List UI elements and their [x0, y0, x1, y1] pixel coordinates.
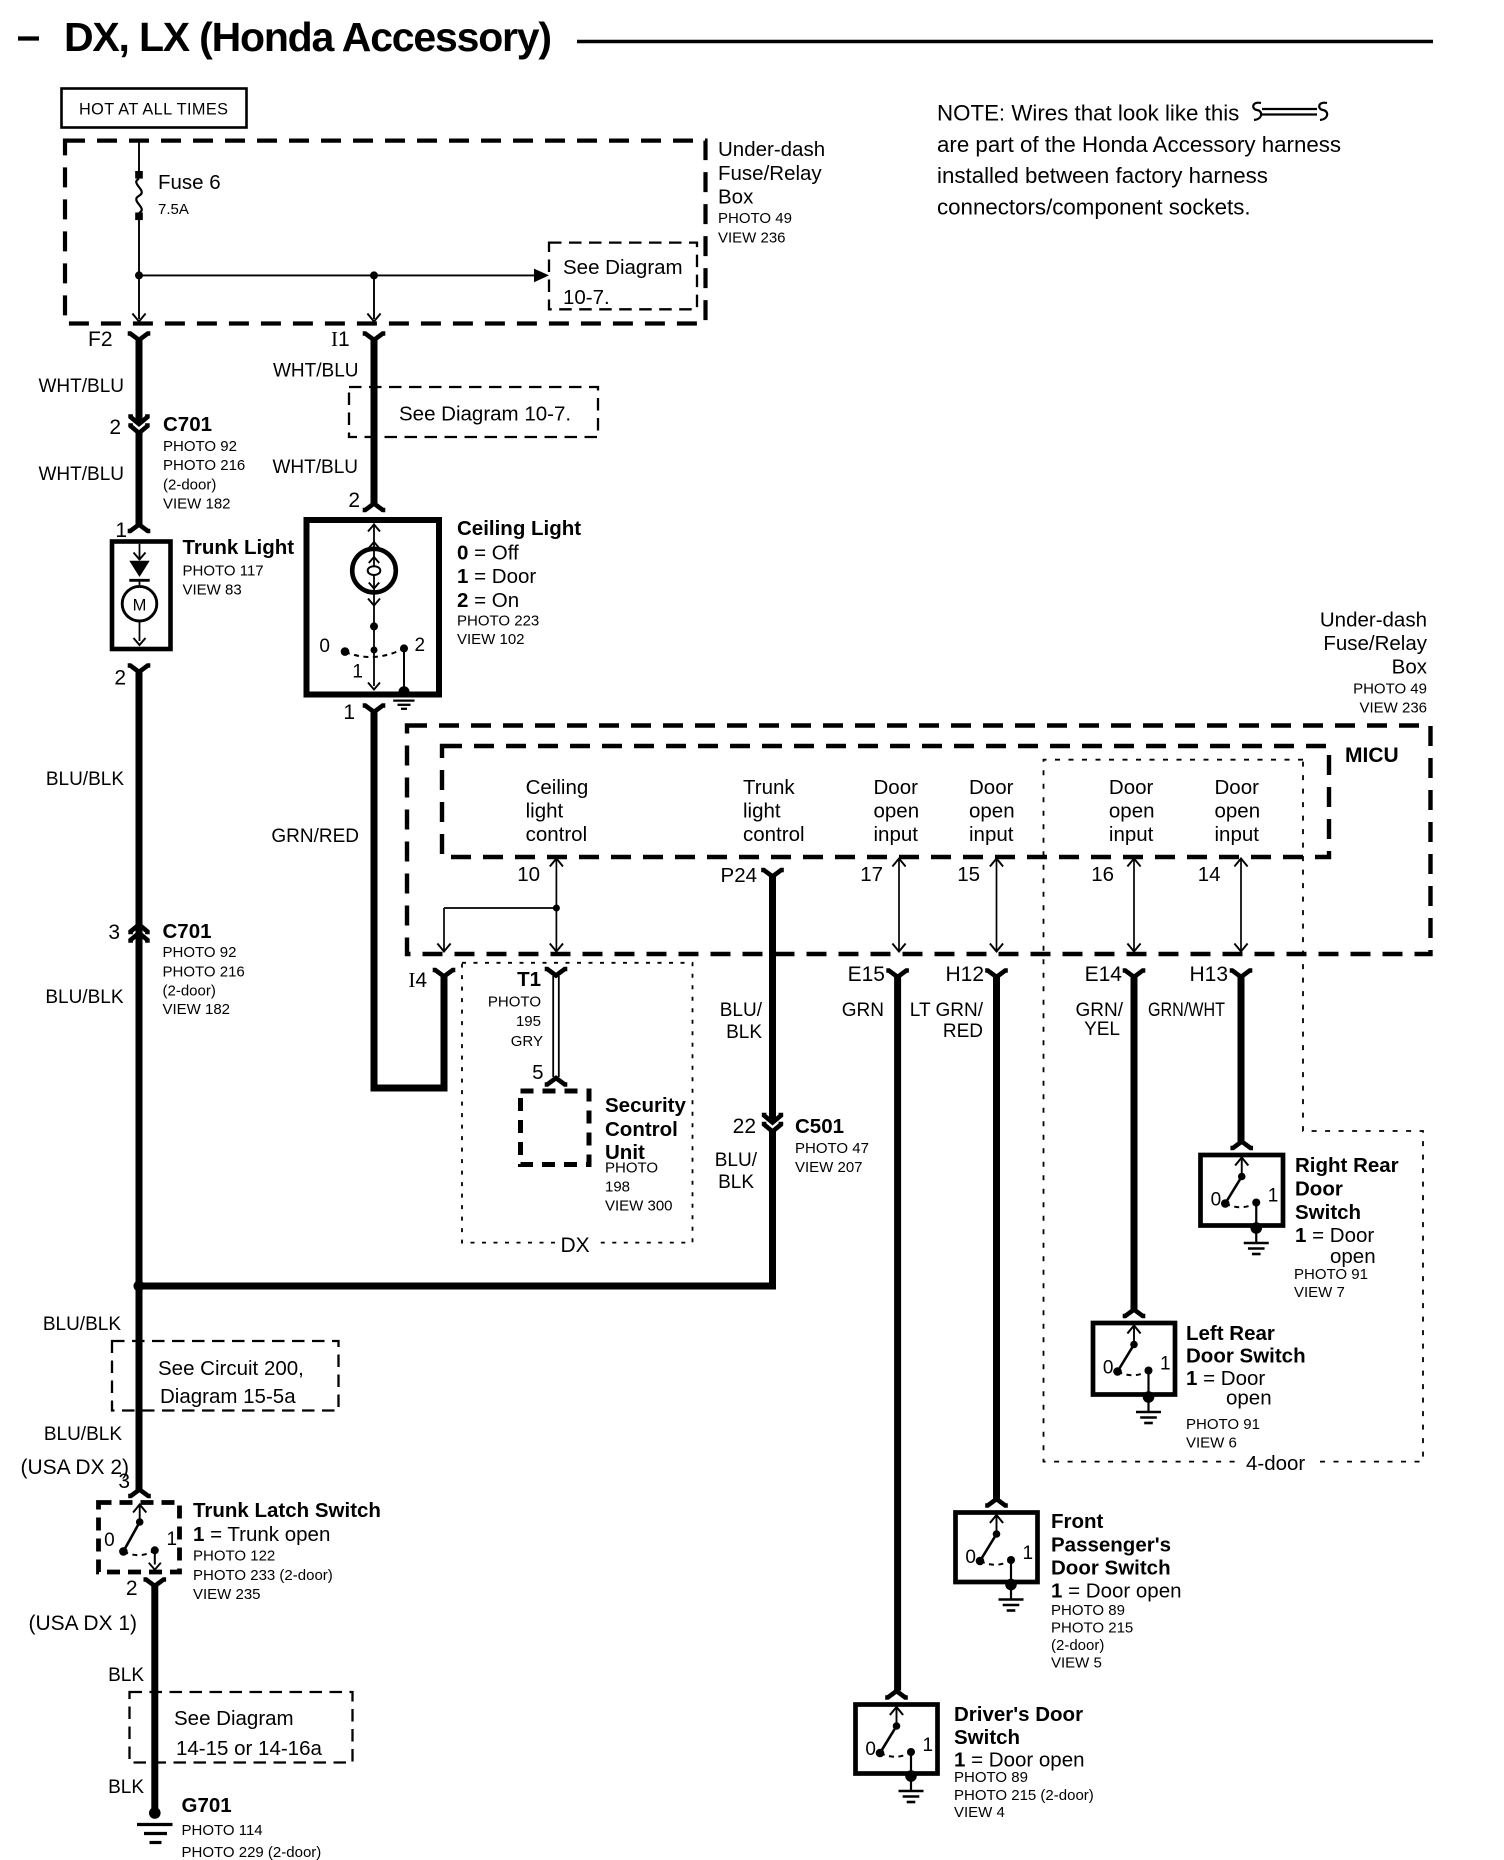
svg-text:Door: Door	[1215, 776, 1260, 799]
svg-text:HOT AT ALL TIMES: HOT AT ALL TIMES	[79, 101, 228, 119]
svg-text:BLU/: BLU/	[715, 1150, 758, 1171]
svg-text:VIEW 83: VIEW 83	[183, 582, 242, 599]
svg-text:G701: G701	[182, 1794, 232, 1817]
svg-text:LT GRN/: LT GRN/	[910, 1000, 984, 1021]
svg-text:WHT/BLU: WHT/BLU	[273, 457, 359, 478]
svg-text:(USA DX 2): (USA DX 2)	[20, 1456, 129, 1479]
svg-text:2: 2	[114, 667, 126, 690]
svg-text:PHOTO 47: PHOTO 47	[795, 1140, 869, 1157]
svg-text:BLK: BLK	[108, 1665, 144, 1686]
svg-text:VIEW 236: VIEW 236	[1359, 700, 1427, 717]
svg-text:2: 2	[126, 1577, 138, 1600]
svg-text:1: 1	[352, 662, 363, 683]
svg-text:VIEW 182: VIEW 182	[163, 496, 231, 513]
svg-text:PHOTO 216: PHOTO 216	[163, 457, 245, 474]
svg-text:PHOTO 223: PHOTO 223	[457, 613, 539, 630]
svg-text:PHOTO 117: PHOTO 117	[183, 563, 264, 580]
svg-text:Switch: Switch	[1295, 1201, 1361, 1224]
svg-text:BLK: BLK	[718, 1172, 754, 1193]
svg-text:VIEW 182: VIEW 182	[163, 1001, 231, 1018]
svg-text:1: 1	[1160, 1354, 1171, 1375]
svg-text:input: input	[874, 823, 919, 846]
svg-text:Trunk Latch Switch: Trunk Latch Switch	[193, 1499, 381, 1522]
svg-text:1 = Door: 1 = Door	[457, 565, 536, 588]
svg-text:Passenger's: Passenger's	[1051, 1534, 1171, 1557]
svg-text:VIEW 102: VIEW 102	[457, 631, 525, 648]
svg-text:VIEW 207: VIEW 207	[795, 1159, 863, 1176]
svg-text:VIEW 5: VIEW 5	[1051, 1655, 1102, 1672]
svg-text:22: 22	[733, 1115, 756, 1138]
svg-text:VIEW 4: VIEW 4	[954, 1804, 1005, 1821]
svg-text:0: 0	[965, 1547, 976, 1568]
svg-text:open: open	[1226, 1387, 1272, 1410]
svg-text:GRN/WHT: GRN/WHT	[1148, 1000, 1225, 1021]
svg-text:VIEW 7: VIEW 7	[1294, 1284, 1345, 1301]
svg-text:GRN/: GRN/	[1076, 1000, 1124, 1021]
svg-text:See Diagram: See Diagram	[174, 1707, 294, 1730]
svg-text:control: control	[743, 823, 805, 846]
svg-text:195: 195	[516, 1013, 541, 1030]
svg-text:Fuse/Relay: Fuse/Relay	[1323, 632, 1427, 655]
svg-text:4-door: 4-door	[1246, 1452, 1305, 1475]
svg-text:Right Rear: Right Rear	[1295, 1154, 1399, 1177]
svg-text:See Diagram 10-7.: See Diagram 10-7.	[399, 403, 571, 426]
svg-text:Security: Security	[605, 1094, 686, 1117]
svg-text:PHOTO 215: PHOTO 215	[1051, 1620, 1133, 1637]
svg-text:Under-dash: Under-dash	[1320, 609, 1427, 632]
svg-text:1: 1	[167, 1529, 178, 1550]
svg-text:C501: C501	[795, 1115, 844, 1138]
svg-text:connectors/component sockets.: connectors/component sockets.	[937, 195, 1251, 220]
svg-text:BLK: BLK	[726, 1022, 762, 1043]
svg-text:Box: Box	[1392, 656, 1428, 679]
svg-text:Ceiling: Ceiling	[526, 776, 589, 799]
svg-text:Door: Door	[1295, 1178, 1343, 1201]
svg-text:open: open	[1215, 800, 1261, 823]
svg-text:1 = Door open: 1 = Door open	[1051, 1580, 1182, 1603]
svg-text:0: 0	[319, 636, 330, 657]
svg-text:0: 0	[104, 1530, 115, 1551]
svg-text:(2-door): (2-door)	[163, 477, 216, 494]
svg-text:2: 2	[109, 416, 121, 439]
svg-text:are part of the Honda Accessor: are part of the Honda Accessory harness	[937, 132, 1341, 157]
svg-text:BLU/: BLU/	[720, 1000, 763, 1021]
svg-text:RED: RED	[943, 1021, 983, 1042]
svg-text:1: 1	[1023, 1543, 1034, 1564]
svg-text:Under-dash: Under-dash	[718, 138, 825, 161]
svg-text:BLU/BLK: BLU/BLK	[46, 769, 124, 790]
svg-text:light: light	[526, 800, 564, 823]
svg-text:(2-door): (2-door)	[1051, 1637, 1104, 1654]
svg-text:E14: E14	[1085, 963, 1123, 986]
svg-text:control: control	[526, 823, 588, 846]
svg-text:P24: P24	[721, 864, 757, 887]
svg-text:T1: T1	[517, 968, 541, 991]
svg-text:WHT/BLU: WHT/BLU	[39, 464, 125, 485]
svg-text:PHOTO 49: PHOTO 49	[718, 210, 792, 227]
svg-text:Door Switch: Door Switch	[1051, 1557, 1171, 1580]
svg-text:WHT/BLU: WHT/BLU	[273, 361, 359, 382]
svg-text:2: 2	[348, 489, 360, 512]
svg-text:BLK: BLK	[108, 1777, 144, 1798]
svg-text:3: 3	[118, 1470, 130, 1493]
svg-text:0: 0	[1211, 1190, 1222, 1211]
svg-text:input: input	[969, 823, 1014, 846]
svg-text:PHOTO 49: PHOTO 49	[1353, 681, 1427, 698]
svg-text:Driver's Door: Driver's Door	[954, 1703, 1083, 1726]
svg-text:Left Rear: Left Rear	[1186, 1322, 1275, 1345]
svg-text:YEL: YEL	[1084, 1019, 1120, 1040]
svg-text:PHOTO 91: PHOTO 91	[1294, 1266, 1368, 1283]
svg-text:(USA DX 1): (USA DX 1)	[28, 1612, 137, 1635]
svg-text:PHOTO 233 (2-door): PHOTO 233 (2-door)	[193, 1567, 333, 1584]
svg-text:VIEW 236: VIEW 236	[718, 230, 786, 247]
svg-text:PHOTO 216: PHOTO 216	[163, 964, 245, 981]
svg-text:1: 1	[115, 519, 127, 542]
svg-text:NOTE: Wires that look like thi: NOTE: Wires that look like this	[937, 101, 1239, 126]
svg-text:I4: I4	[408, 968, 427, 992]
svg-text:E15: E15	[848, 963, 885, 986]
svg-text:open: open	[1330, 1245, 1376, 1268]
svg-text:I1: I1	[331, 327, 350, 351]
svg-text:VIEW 235: VIEW 235	[193, 1586, 261, 1603]
svg-text:2: 2	[415, 635, 426, 656]
svg-text:GRY: GRY	[511, 1033, 543, 1050]
svg-text:light: light	[743, 800, 781, 823]
svg-text:GRN: GRN	[842, 1000, 884, 1021]
svg-text:Trunk Light: Trunk Light	[183, 536, 295, 559]
svg-text:PHOTO 114: PHOTO 114	[182, 1822, 263, 1839]
svg-text:Door: Door	[969, 776, 1014, 799]
svg-text:PHOTO 91: PHOTO 91	[1186, 1416, 1260, 1433]
svg-text:PHOTO 122: PHOTO 122	[193, 1548, 275, 1565]
svg-text:1 = Trunk open: 1 = Trunk open	[193, 1523, 330, 1546]
svg-text:input: input	[1109, 823, 1154, 846]
svg-text:5: 5	[532, 1061, 543, 1084]
svg-text:M: M	[133, 597, 147, 615]
svg-text:input: input	[1215, 823, 1260, 846]
svg-text:PHOTO 92: PHOTO 92	[163, 438, 237, 455]
svg-text:PHOTO 89: PHOTO 89	[954, 1769, 1028, 1786]
svg-text:Front: Front	[1051, 1510, 1104, 1533]
svg-text:Trunk: Trunk	[743, 776, 795, 799]
svg-text:PHOTO: PHOTO	[488, 994, 541, 1011]
svg-text:VIEW 6: VIEW 6	[1186, 1435, 1237, 1452]
svg-text:installed between factory harn: installed between factory harness	[937, 163, 1268, 188]
svg-text:open: open	[1109, 800, 1155, 823]
svg-text:PHOTO 215 (2-door): PHOTO 215 (2-door)	[954, 1787, 1094, 1804]
svg-text:Door: Door	[874, 776, 919, 799]
svg-text:F2: F2	[88, 328, 113, 351]
svg-text:0: 0	[865, 1739, 876, 1760]
svg-text:Diagram 15-5a: Diagram 15-5a	[160, 1385, 296, 1408]
svg-text:PHOTO: PHOTO	[605, 1160, 658, 1177]
svg-text:See Circuit 200,: See Circuit 200,	[158, 1357, 304, 1380]
svg-text:PHOTO 229 (2-door): PHOTO 229 (2-door)	[182, 1844, 322, 1860]
svg-text:PHOTO 89: PHOTO 89	[1051, 1602, 1125, 1619]
svg-text:2 = On: 2 = On	[457, 589, 519, 612]
svg-text:14-15 or 14-16a: 14-15 or 14-16a	[176, 1737, 322, 1760]
svg-text:Box: Box	[718, 186, 754, 209]
svg-text:Door Switch: Door Switch	[1186, 1345, 1306, 1368]
svg-text:Ceiling Light: Ceiling Light	[457, 517, 581, 540]
svg-text:open: open	[874, 800, 920, 823]
svg-text:0 = Off: 0 = Off	[457, 542, 519, 565]
svg-text:Fuse/Relay: Fuse/Relay	[718, 162, 822, 185]
svg-text:16: 16	[1091, 863, 1114, 886]
svg-text:1: 1	[1268, 1186, 1279, 1207]
svg-text:DX, LX (Honda Accessory): DX, LX (Honda Accessory)	[64, 14, 551, 60]
svg-text:198: 198	[605, 1179, 630, 1196]
svg-text:1: 1	[923, 1735, 934, 1756]
svg-text:7.5A: 7.5A	[158, 201, 189, 218]
svg-text:BLU/BLK: BLU/BLK	[43, 1314, 121, 1335]
svg-text:WHT/BLU: WHT/BLU	[39, 376, 125, 397]
svg-text:14: 14	[1198, 863, 1221, 886]
svg-text:1 = Door: 1 = Door	[1295, 1224, 1374, 1247]
svg-text:Control: Control	[605, 1118, 678, 1141]
svg-text:3: 3	[108, 921, 120, 944]
svg-text:C701: C701	[163, 920, 212, 943]
svg-text:17: 17	[860, 863, 883, 886]
svg-text:DX: DX	[561, 1234, 590, 1257]
svg-text:Switch: Switch	[954, 1726, 1020, 1749]
svg-text:GRN/RED: GRN/RED	[271, 826, 359, 847]
svg-text:Fuse 6: Fuse 6	[158, 171, 221, 194]
svg-text:1: 1	[343, 701, 355, 724]
svg-text:0: 0	[1103, 1358, 1114, 1379]
svg-text:BLU/BLK: BLU/BLK	[45, 987, 123, 1008]
svg-text:(2-door): (2-door)	[163, 983, 216, 1000]
svg-text:15: 15	[957, 863, 980, 886]
svg-text:C701: C701	[163, 413, 212, 436]
svg-text:open: open	[969, 800, 1015, 823]
svg-text:PHOTO 92: PHOTO 92	[163, 944, 237, 961]
svg-text:H13: H13	[1189, 963, 1228, 986]
svg-text:Door: Door	[1109, 776, 1154, 799]
svg-text:MICU: MICU	[1345, 744, 1399, 767]
svg-text:H12: H12	[945, 963, 984, 986]
svg-text:10: 10	[517, 863, 540, 886]
svg-text:BLU/BLK: BLU/BLK	[44, 1424, 122, 1445]
svg-text:See Diagram: See Diagram	[563, 256, 683, 279]
svg-text:10-7.: 10-7.	[563, 286, 610, 309]
svg-text:VIEW 300: VIEW 300	[605, 1198, 673, 1215]
